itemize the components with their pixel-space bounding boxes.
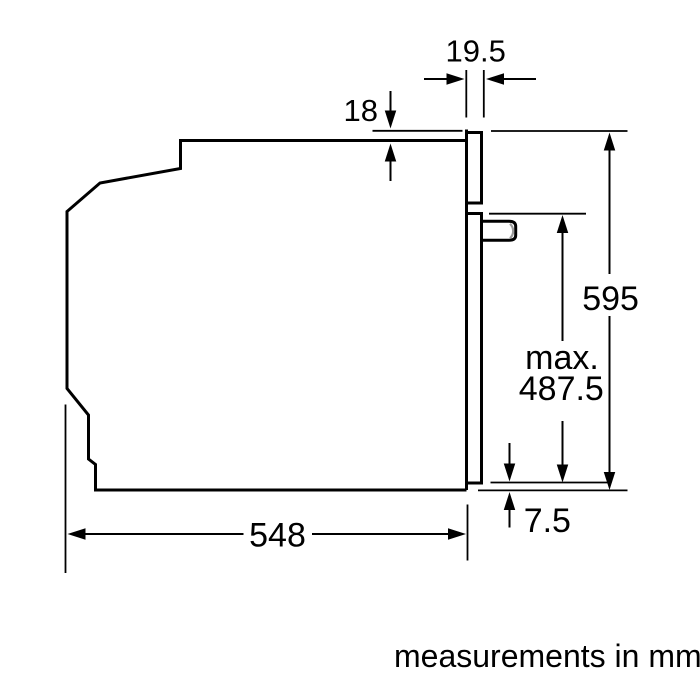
dim max 487.5 lower shaft (562, 421, 564, 466)
dim 19.5 left-pointing arrowhead (486, 73, 504, 85)
dim 19.5 right-pointing arrowhead (447, 73, 465, 85)
dim 18 lower shaft (390, 160, 392, 182)
dim 18 up arrowhead (385, 144, 397, 162)
svg-text:measurements in mm: measurements in mm (394, 638, 700, 674)
dim 595 top extension line (491, 130, 628, 132)
svg-text:7.5: 7.5 (524, 502, 571, 540)
front trim panel (467, 133, 482, 204)
dim 19.5 right shaft (503, 78, 536, 80)
svg-text:18: 18 (344, 93, 378, 128)
dim 7.5 up arrowhead (504, 492, 516, 510)
trim top reference line (373, 130, 463, 132)
dim 548 left-pointing arrowhead (68, 528, 86, 540)
dim 19.5 extension line left (465, 70, 467, 118)
svg-text:487.5: 487.5 (519, 370, 604, 408)
svg-text:595: 595 (582, 280, 639, 318)
dim max 487.5 down arrowhead (557, 465, 569, 483)
dim 7.5 upper shaft (509, 443, 511, 465)
dim 595 down arrowhead (604, 472, 616, 490)
svg-text:548: 548 (249, 517, 306, 555)
dim 595 lower shaft (609, 316, 611, 474)
dim 548 right-pointing arrowhead (448, 528, 466, 540)
oven carcass outline (67, 141, 467, 491)
dim 548 right extension line (467, 505, 469, 561)
control knob (483, 221, 516, 240)
oven front vertical edge (465, 130, 468, 491)
dim 19.5 left shaft (424, 78, 449, 80)
dim max 487.5 upper shaft (562, 232, 564, 342)
dim max 487.5 top extension line (489, 213, 586, 215)
dim 18 upper shaft (390, 91, 392, 114)
knob inner arc (510, 224, 513, 238)
dim max 487.5 up arrowhead (557, 215, 569, 233)
dim 548 left extension line (65, 405, 67, 574)
dim 7.5 down arrowhead (504, 464, 516, 482)
dim 595 up arrowhead (604, 133, 616, 151)
dim 548 left shaft (84, 533, 244, 535)
dim 19.5 extension line right (483, 70, 485, 118)
dim 7.5 lower shaft (509, 509, 511, 528)
svg-text:19.5: 19.5 (446, 34, 506, 69)
dim 7.5 upper reference line (491, 482, 612, 484)
dim 7.5 lower reference line (478, 489, 628, 491)
dim 548 right shaft (312, 533, 450, 535)
oven door (467, 214, 482, 484)
dim 595 upper shaft (609, 149, 611, 274)
dim 18 down arrowhead (385, 111, 397, 129)
